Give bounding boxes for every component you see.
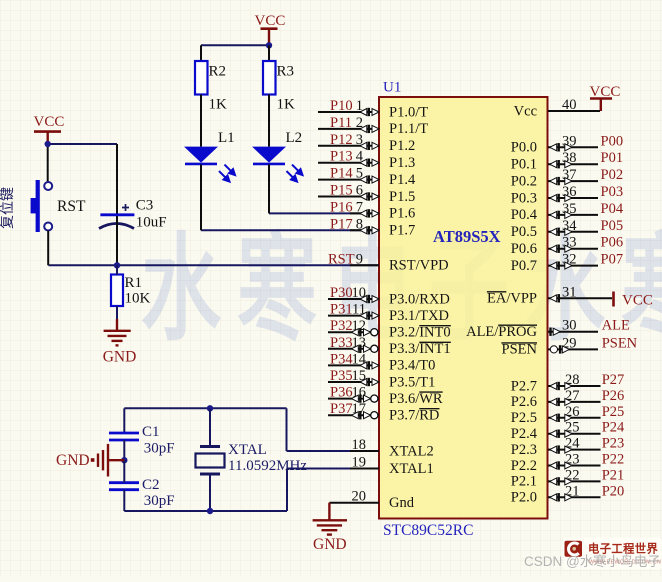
svg-text:EA/VPP: EA/VPP [487, 291, 537, 307]
pin 28 port arrows [550, 382, 572, 390]
resistor R2 [195, 61, 208, 95]
svg-text:P35: P35 [330, 368, 353, 384]
wire gnd node to C2 [123, 460, 125, 483]
svg-text:P3.1/TXD: P3.1/TXD [389, 308, 449, 324]
pin 33 port arrows [550, 245, 572, 253]
wire to R3 [268, 45, 270, 61]
svg-text:L2: L2 [286, 130, 303, 146]
pin 2 port arrows [360, 125, 379, 133]
pin 7 wire P1.6 [269, 212, 379, 214]
svg-text:XTAL: XTAL [228, 442, 267, 458]
wire L2 to P16 [268, 165, 270, 214]
svg-text:P0.5: P0.5 [511, 224, 537, 240]
junction xtal top [207, 405, 213, 411]
svg-text:P3.5/T1: P3.5/T1 [389, 374, 435, 390]
pin 17 wire P3.7 [328, 414, 379, 416]
svg-text:P3.6/WR: P3.6/WR [389, 391, 443, 407]
pin 12 port arrows [352, 328, 371, 336]
pin 13 port arrows [352, 345, 371, 353]
svg-text:P02: P02 [601, 167, 624, 183]
svg-text:P3.2/INT0: P3.2/INT0 [389, 325, 451, 341]
svg-text:10K: 10K [125, 291, 151, 307]
pin 5 port arrows [360, 175, 379, 183]
pin 8 port arrows [360, 226, 379, 234]
svg-text:P0.1: P0.1 [511, 157, 537, 173]
svg-text:P2.7: P2.7 [511, 378, 537, 394]
pin 37 port arrows [550, 177, 572, 185]
svg-text:P20: P20 [602, 483, 625, 499]
pin 35 port arrows [550, 211, 572, 219]
svg-text:P30: P30 [330, 285, 353, 301]
pin 27 wire P2.6 [548, 401, 601, 403]
svg-text:CSDN @水寒小鸟电子: CSDN @水寒小鸟电子 [524, 553, 661, 569]
pin 12 bubble [371, 329, 378, 336]
svg-text:1K: 1K [209, 97, 228, 113]
svg-text:P21: P21 [602, 467, 625, 483]
pin 17 bubble [371, 412, 378, 419]
junction VCC LED node [266, 42, 272, 48]
svg-text:P3.7/RD: P3.7/RD [389, 408, 439, 424]
svg-text:P0.0: P0.0 [511, 140, 537, 156]
svg-text:P0.3: P0.3 [511, 190, 537, 206]
svg-text:RST/VPD: RST/VPD [389, 258, 449, 274]
svg-text:P11: P11 [330, 115, 352, 131]
junction gnd node [121, 457, 127, 463]
svg-text:RST: RST [328, 251, 355, 267]
svg-text:STC89C52RC: STC89C52RC [383, 522, 473, 539]
pin 11 wire P3.1 [328, 315, 379, 317]
pin 1 wire P1.0 [318, 111, 379, 113]
svg-text:P22: P22 [602, 452, 625, 468]
wire VCC rail LEDs [201, 44, 269, 46]
wire to XTAL2 [286, 408, 288, 451]
svg-text:P36: P36 [330, 385, 353, 401]
svg-text:AT89S5X: AT89S5X [433, 227, 501, 246]
svg-text:P25: P25 [602, 404, 625, 420]
LED L1 arrows [219, 165, 235, 182]
pin 23 port arrows [550, 461, 572, 469]
pin 31 port arrow [550, 294, 560, 302]
svg-text:P06: P06 [601, 235, 624, 251]
pin 6 wire P1.5 [318, 196, 379, 198]
svg-text:P0.6: P0.6 [511, 241, 537, 257]
pin 25 port arrows [550, 430, 572, 438]
pin 11 port arrows [360, 311, 379, 319]
pin 18 wire XTAL2 [287, 450, 380, 452]
wire R3 to L2 [268, 95, 270, 147]
wire R2 to L1 [200, 95, 202, 147]
svg-text:P3.0/RXD: P3.0/RXD [389, 291, 450, 307]
svg-text:P0.2: P0.2 [511, 173, 537, 189]
svg-text:寒: 寒 [237, 226, 317, 355]
pin 3 port arrows [360, 142, 379, 150]
svg-text:P2.5: P2.5 [511, 410, 537, 426]
ground symbol R1 [104, 319, 131, 345]
svg-text:P2.2: P2.2 [511, 458, 537, 474]
svg-text:P1.0/T: P1.0/T [389, 104, 428, 120]
svg-text:R3: R3 [277, 64, 295, 80]
LED L2 arrows [287, 165, 303, 182]
svg-text:VCC: VCC [34, 114, 65, 130]
pin 35 wire P0.4 [548, 214, 598, 216]
pin 36 wire P0.3 [548, 197, 598, 199]
VCC power symbol LEDs [268, 29, 270, 46]
junction xtal bottom [207, 508, 213, 514]
pin 29 bubble and arrow [550, 345, 569, 353]
resistor R3 [263, 61, 276, 95]
svg-text:Gnd: Gnd [389, 495, 415, 511]
svg-text:P34: P34 [330, 351, 353, 367]
pin 4 port arrows [360, 159, 379, 167]
svg-text:RST: RST [57, 198, 86, 215]
svg-text:P3.4/T0: P3.4/T0 [389, 358, 435, 374]
svg-text:1K: 1K [277, 97, 296, 113]
pin 10 wire P3.0 [328, 298, 379, 300]
junction RST node [114, 262, 120, 268]
pin 22 port arrows [550, 477, 572, 485]
svg-text:P00: P00 [601, 133, 624, 149]
svg-text:P26: P26 [602, 388, 625, 404]
svg-text:P14: P14 [330, 166, 353, 182]
pin 27 port arrows [550, 398, 572, 406]
wire L1 to P17 [200, 165, 202, 231]
svg-text:P07: P07 [601, 252, 624, 268]
svg-text:P37: P37 [330, 401, 353, 417]
svg-text:9: 9 [356, 251, 363, 267]
pin 24 port arrows [550, 445, 572, 453]
svg-text:P1.3: P1.3 [389, 155, 415, 171]
svg-text:PSEN: PSEN [602, 335, 638, 351]
wire VCC to C3 top [48, 143, 117, 145]
svg-text:30: 30 [562, 318, 577, 334]
svg-text:18: 18 [352, 437, 367, 453]
wire to XTAL1 [286, 469, 288, 512]
resistor R1 [111, 275, 123, 307]
svg-text:R2: R2 [209, 64, 227, 80]
pin 15 port arrows [360, 378, 379, 386]
wire xtal bottom rail [124, 510, 287, 512]
pin 9 wire RST [48, 264, 379, 266]
svg-text:P04: P04 [601, 201, 624, 217]
pin 30 port arrow [549, 328, 560, 336]
pin 3 wire P1.2 [318, 145, 379, 147]
pin 29 wire PSEN [548, 348, 598, 350]
svg-text:P27: P27 [602, 372, 625, 388]
pin 36 port arrows [550, 194, 572, 202]
svg-text:P17: P17 [330, 216, 353, 232]
pin 4 wire P1.3 [318, 162, 379, 164]
VCC power symbol reset [47, 132, 49, 144]
pin 26 wire P2.5 [548, 417, 601, 419]
svg-text:19: 19 [352, 455, 367, 471]
svg-text:L1: L1 [218, 130, 235, 146]
svg-text:XTAL1: XTAL1 [389, 461, 434, 477]
pin 37 wire P0.2 [548, 180, 598, 182]
svg-text:P16: P16 [330, 199, 353, 215]
svg-text:P1.6: P1.6 [389, 206, 415, 222]
pin 14 wire P3.4 [328, 364, 379, 366]
pin 13 wire P3.3 [328, 348, 379, 350]
svg-text:P1.4: P1.4 [389, 172, 416, 188]
svg-text:10uF: 10uF [136, 215, 167, 231]
svg-text:PSEN: PSEN [502, 342, 538, 358]
svg-text:P3.3/INT1: P3.3/INT1 [389, 341, 451, 357]
svg-text:31: 31 [562, 284, 577, 300]
svg-text:GND: GND [313, 536, 347, 553]
svg-text:40: 40 [562, 97, 577, 113]
svg-text:30pF: 30pF [144, 441, 175, 457]
wire switch to RST net [47, 231, 49, 266]
wire VCC to switch [47, 144, 49, 182]
svg-text:P15: P15 [330, 183, 353, 199]
svg-text:P0.4: P0.4 [511, 207, 538, 223]
VCC power symbol pin 31 [612, 292, 615, 307]
IC U1 AT89S5X [379, 97, 548, 519]
pin 22 wire P2.1 [548, 480, 601, 482]
svg-text:P1.1/T: P1.1/T [389, 121, 428, 137]
svg-text:P2.6: P2.6 [511, 394, 537, 410]
svg-text:P0.7: P0.7 [511, 258, 537, 274]
capacitor C2 [109, 481, 139, 484]
pin 39 wire P0.0 [548, 146, 598, 148]
svg-text:11.0592MHz: 11.0592MHz [228, 458, 307, 474]
pin 32 port arrows [550, 261, 572, 269]
junction VCC node [45, 141, 51, 147]
pin 34 port arrows [550, 228, 572, 236]
pin 10 port arrows [360, 295, 379, 303]
svg-text:P03: P03 [601, 184, 624, 200]
svg-text:R1: R1 [125, 275, 143, 291]
svg-text:ALE: ALE [602, 318, 630, 334]
push button RST 复位键 [44, 182, 52, 190]
pin 16 port arrows [352, 394, 371, 402]
svg-text:P23: P23 [602, 436, 625, 452]
pin 13 bubble [371, 345, 378, 352]
pin 6 port arrows [360, 192, 379, 200]
svg-text:VCC: VCC [622, 293, 653, 309]
pin 7 port arrows [360, 209, 379, 217]
crystal XTAL [209, 408, 211, 446]
pin 34 wire P0.5 [548, 231, 598, 233]
svg-text:Vcc: Vcc [514, 103, 537, 119]
svg-text:P32: P32 [330, 318, 353, 334]
svg-text:P05: P05 [601, 218, 624, 234]
pin 21 wire P2.0 [548, 496, 601, 498]
pin 26 port arrows [550, 414, 572, 422]
ground symbol pin 20 [313, 503, 347, 535]
pin 24 wire P2.3 [548, 449, 601, 451]
svg-text:复位键: 复位键 [0, 187, 16, 229]
svg-text:20: 20 [352, 489, 367, 505]
pin 8 wire P1.7 [201, 229, 379, 231]
svg-text:VCC: VCC [590, 84, 621, 100]
wire to R2 [200, 45, 202, 61]
svg-text:C1: C1 [142, 424, 160, 440]
pin 14 port arrows [360, 361, 379, 369]
svg-text:水: 水 [141, 226, 221, 355]
pin 31 wire EA [548, 297, 612, 299]
svg-text:ALE/PROG: ALE/PROG [466, 324, 537, 340]
svg-text:XTAL2: XTAL2 [389, 443, 434, 459]
watermark [141, 226, 662, 355]
pin 33 wire P0.6 [548, 248, 598, 250]
wire C2 down [123, 490, 125, 511]
svg-text:P2.0: P2.0 [511, 490, 537, 506]
svg-text:C3: C3 [136, 198, 154, 214]
svg-text:P24: P24 [602, 420, 625, 436]
pin 5 wire P1.4 [318, 179, 379, 181]
wire C3 to RST net [116, 216, 118, 265]
capacitor C3 [100, 213, 134, 216]
wire to C1 [123, 408, 125, 432]
pin 40 wire Vcc [548, 110, 600, 112]
pin 32 wire P0.7 [548, 265, 598, 267]
pin 15 wire P3.5 [328, 381, 379, 383]
svg-text:U1: U1 [383, 80, 401, 96]
svg-text:P10: P10 [330, 98, 353, 114]
svg-text:P12: P12 [330, 132, 353, 148]
pin 20 wire Gnd [329, 502, 379, 504]
pin 28 wire P2.7 [548, 385, 601, 387]
svg-text:C2: C2 [142, 477, 160, 493]
pin 19 wire XTAL1 [287, 468, 379, 470]
pin 17 port arrows [352, 411, 371, 419]
pin 38 wire P0.1 [548, 163, 598, 165]
svg-text:P31: P31 [330, 302, 353, 318]
svg-text:P2.1: P2.1 [511, 474, 537, 490]
svg-text:GND: GND [103, 349, 137, 366]
svg-text:30pF: 30pF [144, 493, 175, 509]
LED L1 [184, 147, 218, 163]
wire down to C3 [116, 144, 118, 214]
svg-text:GND: GND [56, 452, 90, 469]
LED L2 [252, 147, 286, 163]
svg-text:P1.5: P1.5 [389, 189, 415, 205]
svg-text:P2.3: P2.3 [511, 442, 537, 458]
svg-text:P01: P01 [601, 150, 624, 166]
svg-text:VCC: VCC [255, 13, 286, 29]
VCC power symbol pin 40 [600, 99, 602, 112]
pin 25 wire P2.4 [548, 433, 601, 435]
pin 16 bubble [371, 395, 378, 402]
pin 39 port arrows [550, 143, 572, 151]
pin 1 port arrows [360, 108, 379, 116]
pin 16 wire P3.6 [328, 398, 379, 400]
pin 21 port arrows [550, 493, 572, 501]
pin 12 wire P3.2 [328, 331, 379, 333]
svg-text:P2.4: P2.4 [511, 426, 538, 442]
pin 2 wire P1.1 [318, 128, 379, 130]
wire C1 to gnd node [123, 440, 125, 460]
svg-text:P1.2: P1.2 [389, 138, 415, 154]
logo 电子工程世界 [564, 538, 662, 570]
svg-text:P1.7: P1.7 [389, 223, 415, 239]
capacitor C1 [109, 432, 139, 435]
wire xtal top rail [124, 407, 286, 409]
pin 38 port arrows [550, 160, 572, 168]
svg-text:P13: P13 [330, 149, 353, 165]
svg-text:P33: P33 [330, 335, 353, 351]
pin 30 wire ALE [548, 331, 598, 333]
pin 23 wire P2.2 [548, 465, 601, 467]
